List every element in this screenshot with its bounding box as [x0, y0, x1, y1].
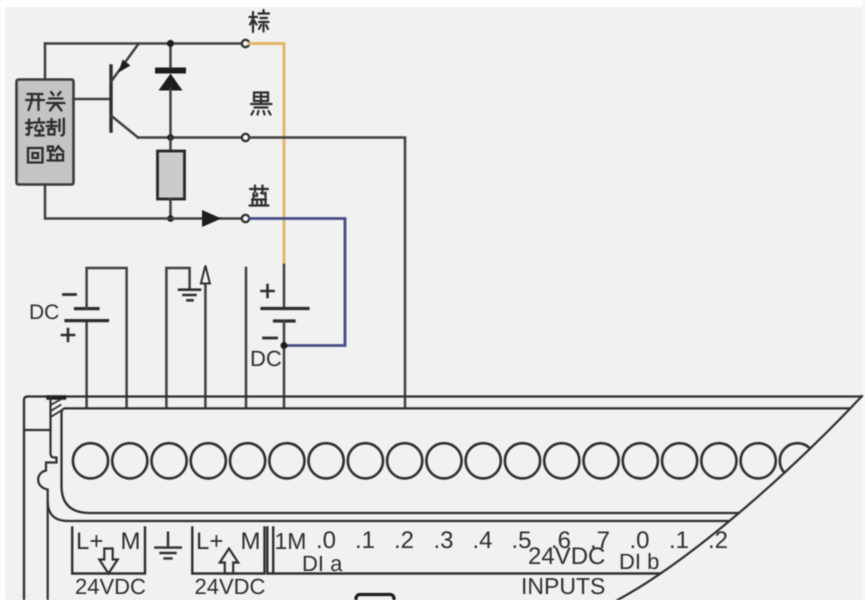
junction node: blue rail / resistor — [167, 215, 174, 222]
svg-text:24VDC: 24VDC — [195, 574, 266, 599]
svg-text:.0: .0 — [316, 527, 336, 554]
resistor R1 body — [158, 151, 185, 199]
PLC left hinge cap — [49, 395, 65, 399]
battery DC1 plus label — [62, 329, 74, 341]
diode D1 top lead — [169, 44, 172, 68]
svg-text:INPUTS: INPUTS — [521, 573, 605, 599]
battery DC2 minus plate (short) — [275, 319, 295, 322]
hollow down arrow (power out) — [99, 549, 117, 574]
svg-text:.1: .1 — [669, 527, 689, 554]
PLC module top edge line — [27, 395, 862, 397]
transistor Q1 collector — [112, 116, 139, 138]
transistor Q1 emitter arrow (PNP, points into base) — [119, 60, 131, 73]
svg-text:.6: .6 — [551, 527, 571, 554]
resistor R1 bottom lead — [169, 199, 172, 219]
wire: black lead to DI input terminal — [250, 138, 406, 408]
battery DC2 plus plate (long) — [262, 307, 308, 310]
DI a terminal number labels — [316, 527, 728, 554]
label box: DI inputs double bar — [267, 528, 700, 574]
battery DC1 minus label — [64, 293, 76, 296]
junction node: DC2 minus / blue wire — [281, 342, 288, 349]
earth terminal symbol (between boxes) — [155, 533, 181, 559]
connector symbol at bottom edge — [356, 595, 394, 600]
battery DC2 top lead — [283, 265, 286, 307]
battery DC2 plus label — [262, 285, 274, 297]
terminal: black (黑) open circle — [242, 134, 249, 141]
terminal: brown (棕) open circle — [242, 40, 249, 47]
wire: brown lead (orange) to DC2 battery + — [250, 44, 285, 267]
battery DC2 bottom lead to 1M terminal — [283, 321, 286, 408]
terminal cover flap lower edge — [48, 503, 750, 521]
svg-text:DI a: DI a — [302, 551, 343, 576]
terminal cover top edge — [66, 407, 853, 409]
svg-text:.1: .1 — [355, 527, 375, 554]
svg-text:.2: .2 — [708, 527, 728, 554]
label 黑 (black) — [251, 93, 272, 115]
svg-text:.4: .4 — [472, 527, 492, 554]
curved cut line of block drawing — [610, 396, 862, 600]
wire: ground loop from terminal — [166, 268, 189, 408]
label box: sensor supply L+/M — [72, 528, 145, 574]
wire: box bottom to blue rail — [45, 185, 242, 219]
glyph 开 — [26, 94, 44, 110]
ground symbol (earth) — [179, 290, 200, 301]
junction node: top rail / diode — [167, 40, 174, 47]
wire: box top to top rail — [44, 44, 47, 80]
svg-text:M: M — [241, 528, 261, 555]
svg-text:.5: .5 — [511, 527, 531, 554]
box text 开关 / 控制 / 回路 (drawn glyphs) — [26, 92, 65, 163]
svg-text:.0: .0 — [629, 527, 649, 554]
wire: blue lead loop to DC2 battery - — [250, 219, 346, 346]
svg-text:24VDC: 24VDC — [75, 574, 146, 599]
transistor Q1 emitter (to +rail) — [112, 44, 139, 82]
diode arrow D2 (points to blue terminal) — [202, 210, 222, 227]
battery DC1 minus plate (short) — [76, 307, 99, 310]
junction node: black rail / diode / resistor — [167, 134, 174, 141]
battery DC1 left lead (L+ wire) — [85, 321, 88, 408]
diode D1 bottom lead — [169, 89, 172, 138]
glyph 制 — [47, 119, 64, 136]
wire: base of Q1 to box — [74, 98, 110, 101]
battery DC1 top loop to M wire — [87, 268, 127, 408]
PLC left hinge hatch — [52, 400, 61, 417]
wire: black net rail from collector to black terminal — [138, 136, 242, 139]
label box: power input L+/M — [192, 528, 264, 574]
diode D1 triangle (anode, pointing up) — [159, 74, 183, 91]
glyph 回 — [28, 148, 43, 163]
resistor R1 top lead — [169, 138, 172, 152]
wire: M input stub — [245, 268, 248, 408]
glyph 路 — [48, 146, 64, 161]
PLC module outer left edge — [24, 397, 28, 600]
terminal cover left edge and bottom edge — [62, 408, 771, 513]
battery DC2 minus label — [264, 337, 277, 340]
svg-text:.3: .3 — [433, 527, 453, 554]
wire: L+ input sense with up arrow — [204, 282, 207, 408]
PLC module left inner horizontal — [24, 429, 51, 431]
switch control box U1 (开关控制回路) — [17, 80, 74, 185]
transistor Q1 base bar — [109, 66, 112, 131]
glyph 控 — [26, 119, 45, 136]
terminal screw circles row — [73, 443, 815, 478]
arrow head (up, hollow) on L+ wire — [201, 266, 210, 284]
glyph 关 — [47, 92, 65, 111]
label 棕 (brown) — [250, 10, 270, 32]
svg-text:L+: L+ — [76, 528, 103, 555]
svg-text:.7: .7 — [590, 527, 610, 554]
label 蓝 (blue) — [250, 186, 269, 206]
svg-text:M: M — [121, 528, 141, 555]
wire: top rail (brown net) from box to brown terminal — [45, 42, 242, 45]
battery DC1 plus plate (long) — [66, 319, 108, 322]
svg-text:DC: DC — [29, 301, 59, 324]
svg-text:L+: L+ — [196, 528, 223, 555]
PLC left latch outline — [38, 398, 56, 600]
diode D1 cathode bar — [158, 68, 183, 74]
svg-text:DC: DC — [250, 346, 282, 371]
terminal: blue (蓝) open circle — [242, 215, 249, 222]
hollow up arrow (power in) — [220, 549, 238, 574]
svg-text:.2: .2 — [394, 527, 414, 554]
